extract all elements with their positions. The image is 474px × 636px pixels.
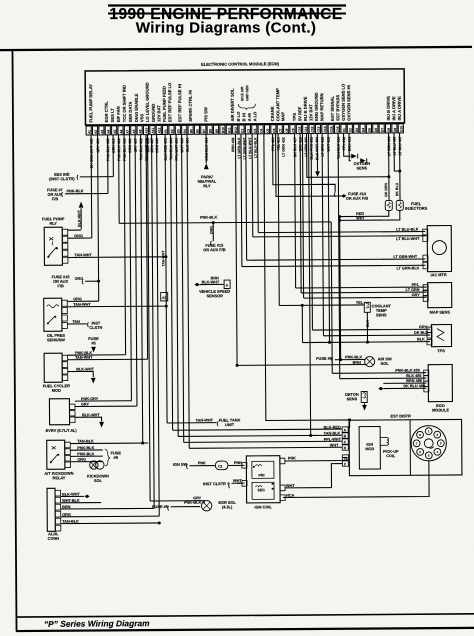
- svg-text:TAN-WHT: TAN-WHT: [161, 250, 165, 267]
- wire BLK-WHT with up arrow: [80, 208, 82, 229]
- wire TAN-WHT trunk to fuel tank unit: [165, 134, 167, 422]
- svg-text:ENG GROUND: ENG GROUND: [314, 92, 319, 121]
- svg-text:C11: C11: [304, 127, 308, 133]
- wire LT GRN to MAP: [300, 134, 301, 293]
- wire distributor to coil NCA: [283, 461, 429, 498]
- air switch solenoid symbol: [365, 357, 375, 367]
- wire ORG to fuse 13: [212, 223, 214, 241]
- svg-text:B1: B1: [164, 129, 168, 133]
- svg-text:PNK-BLK: PNK-BLK: [184, 501, 201, 505]
- svg-text:C6: C6: [272, 128, 276, 132]
- svg-text:IDLE AIR: IDLE AIR: [240, 86, 244, 101]
- svg-text:FUEL PUMP FEED: FUEL PUMP FEED: [162, 86, 167, 122]
- svg-text:MAP RETURN: MAP RETURN: [319, 93, 324, 121]
- svg-text:CONN: CONN: [48, 536, 60, 541]
- svg-text:INJECTORS: INJECTORS: [405, 206, 428, 211]
- svg-text:D10: D10: [399, 126, 403, 132]
- svg-text:OR AUX F/B: OR AUX F/B: [203, 247, 226, 252]
- svg-text:D1: D1: [342, 128, 346, 132]
- svg-text:C14: C14: [323, 126, 327, 132]
- svg-text:A9: A9: [138, 129, 142, 133]
- wire BLK to TPS shared ground: [328, 133, 329, 342]
- svg-text:LT GRN-WHT: LT GRN-WHT: [393, 255, 417, 259]
- svg-text:A HI: A HI: [247, 113, 252, 121]
- svg-text:1: 1: [344, 456, 346, 460]
- svg-text:D6: D6: [374, 128, 378, 132]
- svg-text:{: {: [334, 192, 336, 198]
- svg-text:SER DATA: SER DATA: [128, 102, 133, 123]
- svg-text:BLK-WHT: BLK-WHT: [202, 280, 220, 284]
- A3 connector box: [161, 292, 168, 300]
- svg-text:5V REF: 5V REF: [297, 106, 302, 121]
- svg-text:{: {: [76, 175, 78, 181]
- svg-text:ORG: ORG: [209, 226, 213, 234]
- svg-text:LO LEVEL GROUND: LO LEVEL GROUND: [145, 82, 150, 122]
- svg-text:F/B: F/B: [52, 196, 58, 201]
- wire PNK-BLK fuse7 to ECM: [65, 192, 108, 194]
- svg-text:BLK 485: BLK 485: [406, 374, 421, 378]
- wire TAN-BLK to ign module: [176, 134, 178, 436]
- coil pin boxes: [242, 462, 247, 468]
- EGR solenoid symbol: [201, 500, 211, 510]
- svg-text:{: {: [228, 483, 230, 489]
- svg-text:WHT: WHT: [233, 479, 242, 483]
- svg-text:A LO: A LO: [252, 111, 257, 122]
- ignition coil box: [246, 456, 280, 503]
- svg-text:AIR DIVERT SOL: AIR DIVERT SOL: [230, 88, 235, 122]
- svg-text:PNK: PNK: [234, 461, 242, 465]
- svg-text:BRN 486: BRN 486: [406, 379, 422, 383]
- wire relay to BLK-WHT: [68, 229, 81, 231]
- svg-text:IGN COIL: IGN COIL: [255, 504, 273, 509]
- svg-text:SENSOR: SENSOR: [206, 293, 223, 298]
- svg-text:TAN-BLK: TAN-BLK: [324, 431, 341, 435]
- svg-text:C1: C1: [218, 465, 223, 469]
- svg-text:A6: A6: [119, 129, 123, 133]
- EVRV box: [49, 399, 69, 425]
- svg-text:2: 2: [344, 462, 346, 466]
- svg-text:BLK: BLK: [417, 337, 425, 341]
- svg-text:PNK-BLK: PNK-BLK: [66, 189, 83, 193]
- svg-text:BLK-RED: BLK-RED: [324, 425, 341, 429]
- wire DK BLU 480 to EGO with arrow: [378, 387, 383, 391]
- wire colour labels under ECM pins: [90, 135, 403, 168]
- svg-text:D3: D3: [355, 128, 359, 132]
- svg-text:TPS: TPS: [437, 348, 445, 353]
- injector 1 symbol: [385, 200, 392, 210]
- svg-text:B2: B2: [170, 129, 174, 133]
- wire PNK-BLK main feed horizontal: [118, 135, 121, 223]
- fuel pump relay K1 box: [44, 227, 62, 265]
- svg-text:BLK-WHT: BLK-WHT: [77, 209, 81, 227]
- svg-text:OXYGEN SENS HI: OXYGEN SENS HI: [346, 85, 351, 120]
- svg-text:LT BLU-WHT: LT BLU-WHT: [396, 237, 420, 241]
- svg-text:A8: A8: [132, 129, 136, 133]
- svg-text:NCA: NCA: [286, 494, 295, 498]
- svg-text:P/S SW: P/S SW: [203, 107, 208, 122]
- svg-text:IAC MTR: IAC MTR: [430, 272, 446, 277]
- svg-text:RELAY: RELAY: [53, 475, 66, 480]
- svg-text:SOL: SOL: [94, 478, 103, 483]
- wire CRANK to fuse 14: [273, 133, 336, 192]
- coolant temp sensor symbol: [364, 302, 370, 312]
- bottom caption bar: [16, 614, 474, 617]
- svg-text:DK BLU: DK BLU: [414, 331, 429, 335]
- svg-text:D7: D7: [380, 128, 384, 132]
- svg-text:SENS: SENS: [347, 396, 358, 401]
- svg-text:GRY: GRY: [419, 325, 428, 329]
- svg-text:TCC OR SHIFT IND: TCC OR SHIFT IND: [122, 85, 127, 122]
- svg-text:INJ A DRIVE: INJ A DRIVE: [391, 96, 396, 120]
- svg-text:PPL-WHT: PPL-WHT: [324, 437, 342, 441]
- svg-text:C16: C16: [336, 126, 340, 132]
- svg-text:FUEL PUMP RELAY: FUEL PUMP RELAY: [88, 84, 93, 123]
- svg-text:B4: B4: [183, 129, 187, 133]
- page title block: [108, 4, 346, 6]
- pick-up coil symbol: [382, 437, 389, 445]
- svg-text:ORG: ORG: [77, 458, 86, 462]
- svg-text:A12: A12: [157, 127, 161, 133]
- fuel pump relay contacts: [48, 247, 56, 256]
- kickdown relay contacts: [51, 454, 58, 462]
- svg-text:C15: C15: [329, 126, 333, 132]
- svg-text:C12: C12: [310, 126, 314, 132]
- svg-text:SENS/SW: SENS/SW: [47, 337, 65, 342]
- svg-text:{: {: [167, 505, 169, 511]
- svg-text:ORG: ORG: [73, 297, 82, 301]
- IAC motor box: [427, 226, 451, 272]
- oxygen sensor arrows: [344, 133, 351, 156]
- svg-text:EST BYPASS: EST BYPASS: [335, 95, 340, 121]
- svg-text:COIL: COIL: [386, 454, 396, 458]
- svg-text:WHT: WHT: [330, 443, 339, 447]
- svg-text:SES LT: SES LT: [110, 108, 115, 123]
- wire EST bypass to ign module: [309, 133, 317, 435]
- svg-text:TPS: TPS: [292, 113, 297, 121]
- svg-text:PNK: PNK: [198, 461, 206, 465]
- svg-text:C1: C1: [240, 129, 244, 133]
- svg-text:BRN 436: BRN 436: [231, 137, 235, 151]
- EGO module box: [428, 364, 452, 401]
- svg-text:CLSTR: CLSTR: [89, 325, 102, 330]
- svg-text:D4: D4: [361, 128, 365, 132]
- svg-text:OXYGEN SENS LO: OXYGEN SENS LO: [341, 83, 346, 121]
- svg-text:DK GRN: DK GRN: [384, 182, 388, 196]
- wire BLK-RED to ign module: [171, 134, 173, 430]
- wire spark with left arrow: [276, 133, 342, 196]
- svg-text:C3: C3: [253, 129, 257, 133]
- svg-text:C4: C4: [259, 129, 263, 133]
- kickdown solenoid symbol: [90, 461, 98, 469]
- svg-text:{: {: [186, 464, 188, 470]
- svg-text:INJ B DRIVE: INJ B DRIVE: [386, 96, 391, 121]
- svg-text:C7: C7: [278, 128, 282, 132]
- svg-text:{: {: [61, 192, 63, 198]
- svg-text:SOL: SOL: [381, 361, 390, 366]
- svg-text:B LO: B LO: [236, 111, 241, 122]
- svg-text:C13: C13: [317, 126, 321, 132]
- svg-text:A3: A3: [100, 130, 104, 134]
- svg-text:D8: D8: [387, 128, 391, 132]
- svg-text:C9: C9: [291, 128, 295, 132]
- svg-text:B7: B7: [202, 129, 206, 133]
- svg-text:(INST CLSTR): (INST CLSTR): [49, 176, 75, 181]
- svg-text:ORG: ORG: [74, 234, 83, 238]
- svg-text:EST REF PULSE LO: EST REF PULSE LO: [167, 82, 172, 122]
- svg-text:D5: D5: [368, 128, 372, 132]
- left page border: [12, 50, 16, 631]
- svg-text:A10: A10: [145, 128, 149, 134]
- svg-text:B5: B5: [189, 129, 193, 133]
- svg-text:SENS: SENS: [376, 312, 387, 317]
- svg-text:OR AUX F/B: OR AUX F/B: [346, 196, 369, 201]
- wire BRN 486 to EGO module: [383, 382, 426, 384]
- svg-text:DK BLU 480: DK BLU 480: [403, 384, 425, 388]
- svg-text:VSS: VSS: [139, 114, 144, 123]
- wire PPL to MAP: [295, 134, 296, 288]
- svg-text:TAN: TAN: [72, 320, 80, 324]
- svg-text:TAN-WHT: TAN-WHT: [74, 253, 92, 257]
- svg-text:E/F FAN: E/F FAN: [116, 106, 121, 122]
- wire injector 2 feed: [399, 133, 401, 201]
- wire EST signal to distributor top: [264, 133, 350, 420]
- ignition module box: [359, 427, 380, 470]
- svg-text:{: {: [82, 279, 84, 285]
- svg-text:A7: A7: [126, 129, 130, 133]
- wire DK BLU to TPS: [322, 133, 323, 335]
- oil pressure switch symbol: [48, 316, 55, 323]
- svg-text:PNK-BLK: PNK-BLK: [345, 355, 362, 359]
- svg-text:LT GRN: LT GRN: [406, 288, 420, 292]
- wire PNK-BLK 439 to EGO module: [331, 222, 332, 373]
- svg-text:PNK-BLK: PNK-BLK: [200, 216, 217, 220]
- ign module pin boxes: [342, 427, 348, 432]
- injector 2 symbol: [396, 200, 403, 210]
- svg-text:C2: C2: [247, 129, 251, 133]
- svg-text:RLY: RLY: [49, 221, 57, 226]
- IDLE AIR GRD SEN bracket label: [238, 85, 255, 110]
- EST distributor outer box: [349, 419, 462, 475]
- svg-text:SEC: SEC: [258, 488, 266, 492]
- svg-text:LT GRN 432: LT GRN 432: [282, 137, 286, 157]
- svg-text:PPL: PPL: [412, 283, 420, 287]
- svg-text:DK BLU: DK BLU: [395, 182, 399, 196]
- svg-text:GRY: GRY: [412, 293, 421, 297]
- wire PPL-WHT to ign module: [182, 134, 184, 442]
- TPS box: [431, 325, 451, 347]
- svg-text:(4.3L): (4.3L): [222, 504, 233, 509]
- svg-text:LT GRN-BLK: LT GRN-BLK: [396, 266, 419, 270]
- svg-text:C8: C8: [285, 128, 289, 132]
- svg-text:A4: A4: [106, 130, 110, 134]
- ECM pin number boxes: [86, 124, 403, 135]
- ALDL connector box: [47, 488, 55, 531]
- svg-text:B11: B11: [227, 127, 231, 133]
- svg-text:B6: B6: [196, 129, 200, 133]
- svg-text:B3: B3: [177, 129, 181, 133]
- svg-text:B9: B9: [215, 129, 219, 133]
- wire WHT into coil left: [237, 482, 242, 484]
- svg-text:EST REF PULSE HI: EST REF PULSE HI: [177, 84, 182, 122]
- park neutral relay connector: [205, 134, 207, 163]
- svg-text:B12: B12: [234, 127, 238, 133]
- svg-text:A5: A5: [113, 130, 117, 134]
- wire ENG GROUND to chassis arrow: [316, 133, 318, 170]
- wire ORG fuse15: [85, 280, 98, 282]
- svg-text:CRANK: CRANK: [270, 106, 275, 121]
- distributor cap circle: [411, 426, 446, 461]
- svg-text:EGR CTRL: EGR CTRL: [104, 101, 109, 123]
- svg-text:YEL: YEL: [356, 301, 364, 305]
- wire GRY to TPS: [311, 133, 312, 330]
- svg-text:MAP: MAP: [280, 112, 285, 121]
- svg-text:EST SIGNAL: EST SIGNAL: [330, 95, 335, 120]
- svg-text:RLY: RLY: [203, 183, 211, 188]
- wire YEL to coolant sensor: [278, 134, 279, 306]
- svg-text:UNIT: UNIT: [225, 422, 235, 427]
- svg-text:“P” Series Wiring Diagram: “P” Series Wiring Diagram: [44, 618, 150, 629]
- svg-text:PRI: PRI: [258, 473, 264, 477]
- svg-text:MODULE: MODULE: [432, 407, 449, 412]
- svg-text:MOD: MOD: [365, 447, 374, 451]
- svg-text:A3: A3: [162, 296, 166, 300]
- svg-text:F/B: F/B: [57, 283, 63, 288]
- svg-text:12V BAT: 12V BAT: [156, 105, 161, 122]
- svg-text:D9: D9: [393, 128, 397, 132]
- svg-text:MAP SENS: MAP SENS: [430, 310, 451, 315]
- A/T kickdown relay box: [47, 440, 65, 469]
- svg-text:SPARK CTRL HI: SPARK CTRL HI: [188, 90, 193, 122]
- ECM pin function labels: [88, 80, 402, 122]
- svg-text:C5: C5: [266, 128, 270, 132]
- wire WHT to ign module: [187, 134, 189, 448]
- svg-text:A1: A1: [87, 130, 91, 134]
- fuel cycler module box: [44, 353, 62, 382]
- svg-text:INJ A DRIVE: INJ A DRIVE: [397, 96, 402, 120]
- svg-text:GRD SEN: GRD SEN: [245, 85, 249, 101]
- svg-text:B8: B8: [208, 129, 212, 133]
- svg-text:SENS: SENS: [356, 165, 367, 170]
- svg-text:C10: C10: [298, 126, 302, 132]
- top rule: [0, 47, 472, 50]
- wire GRY to MAP: [302, 134, 303, 299]
- oil pressure sensor/switch box: [44, 298, 62, 331]
- svg-text:ELECTRONIC CONTROL MODULE (ECM: ELECTRONIC CONTROL MODULE (ECM): [201, 61, 280, 67]
- wire injector feed from INJ B pin: [388, 133, 390, 201]
- svg-text:EVRV (8.7L/7.4L): EVRV (8.7L/7.4L): [46, 428, 78, 433]
- svg-text:A2: A2: [94, 130, 98, 134]
- wire BRN from air divert pin to solenoid: [235, 134, 237, 365]
- MAP sensor box: [428, 283, 452, 308]
- wire GRY to EGR sol: [148, 135, 151, 501]
- svg-text:MOD: MOD: [52, 388, 61, 393]
- svg-text:A11: A11: [151, 128, 155, 134]
- svg-text:12V BAT: 12V BAT: [308, 104, 313, 121]
- svg-text:B10: B10: [221, 127, 225, 133]
- svg-text:Wiring Diagrams (Cont.): Wiring Diagrams (Cont.): [136, 20, 317, 37]
- wires to IAC motor: [257, 134, 260, 233]
- svg-text:LT BLU-BLK: LT BLU-BLK: [396, 228, 419, 232]
- svg-text:B HI: B HI: [241, 113, 246, 121]
- FUSE #8 bracket: [105, 449, 110, 466]
- svg-text:DIAG ENABLE: DIAG ENABLE: [134, 93, 139, 122]
- wire BLK 485 to EGO module: [338, 133, 340, 378]
- svg-text:EST DISTR: EST DISTR: [391, 413, 412, 418]
- ECM U1 box: [85, 69, 404, 125]
- svg-text:PNK-BLK 439: PNK-BLK 439: [395, 369, 420, 373]
- svg-text:PNK: PNK: [288, 456, 296, 460]
- svg-text:GROUND: GROUND: [151, 104, 156, 122]
- svg-text:TAN-WHT: TAN-WHT: [196, 418, 214, 422]
- svg-text:GRY: GRY: [81, 402, 90, 406]
- svg-text:D2: D2: [348, 128, 352, 132]
- svg-text:INST CLSTR ?: INST CLSTR ?: [203, 481, 230, 486]
- svg-text:INJ B DRIVE: INJ B DRIVE: [303, 96, 308, 121]
- wire SES IND to ECM: [80, 176, 113, 178]
